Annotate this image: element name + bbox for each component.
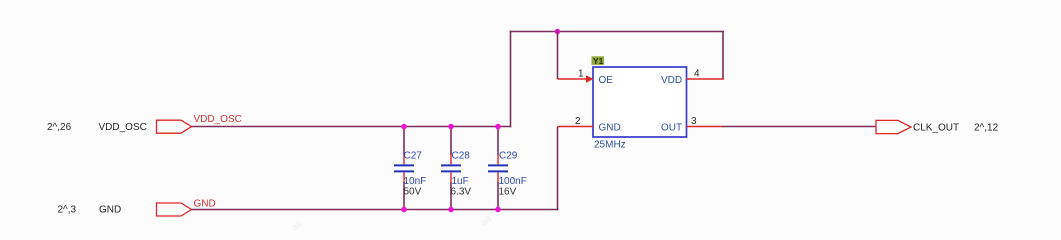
node C27 bottom <box>401 207 407 213</box>
port VDD_OSC <box>157 120 192 133</box>
node C28 bottom <box>448 207 454 213</box>
pin 4 VDD <box>687 78 724 80</box>
svg-text:VDD: VDD <box>661 75 682 86</box>
svg-text:VDD_OSC: VDD_OSC <box>194 114 242 125</box>
capacitor C27 <box>394 124 426 213</box>
svg-text:VDD_OSC: VDD_OSC <box>99 122 147 133</box>
svg-text:GND: GND <box>99 205 121 216</box>
svg-text:4: 4 <box>694 69 700 80</box>
svg-text:C27: C27 <box>404 151 423 162</box>
pin C29 top <box>497 155 499 164</box>
pin 3 OUT <box>687 126 724 128</box>
svg-text:1uF: 1uF <box>452 176 469 187</box>
plates C29 <box>488 164 508 166</box>
pin C27 top <box>403 155 405 164</box>
svg-text:OUT: OUT <box>661 122 682 133</box>
pin C27 bottom <box>403 173 405 183</box>
svg-text:CLK_OUT: CLK_OUT <box>913 122 959 133</box>
svg-text:16V: 16V <box>499 187 517 198</box>
watermark <box>289 214 493 233</box>
svg-text:1: 1 <box>578 69 584 80</box>
wire GND horizontal <box>192 209 559 211</box>
pin C28 bottom <box>450 173 452 183</box>
svg-text:25MHz: 25MHz <box>594 139 626 150</box>
svg-text:GND: GND <box>194 198 216 209</box>
node C27 top <box>401 124 407 130</box>
svg-text:2^,26: 2^,26 <box>47 122 72 133</box>
wire GND vertical up to pin 2 <box>557 127 559 211</box>
svg-text:GND: GND <box>599 122 621 133</box>
svg-text:6.3V: 6.3V <box>451 187 472 198</box>
svg-text:100nF: 100nF <box>499 176 527 187</box>
wire vertical up to top rail <box>510 31 512 128</box>
pin C29 bottom <box>497 173 499 183</box>
wire cap C27 bottom <box>403 182 405 210</box>
svg-text:C28: C28 <box>452 151 471 162</box>
svg-text:C29: C29 <box>499 151 518 162</box>
svg-text:Y1: Y1 <box>593 56 604 66</box>
node C29 top <box>495 124 501 130</box>
wire VDD_OSC horizontal <box>192 126 512 128</box>
port GND <box>157 203 192 216</box>
designator highlight Y1 <box>592 56 605 65</box>
wire cap C28 bottom <box>450 182 452 210</box>
plates C27 <box>394 164 414 166</box>
port CLK_OUT <box>876 120 911 133</box>
svg-text:10nF: 10nF <box>404 176 427 187</box>
wire cap C27 top <box>403 127 405 156</box>
wire down to pin 1 <box>557 31 559 79</box>
svg-text:2^,3: 2^,3 <box>58 205 77 216</box>
capacitor C29 <box>488 124 527 213</box>
svg-text:OE: OE <box>599 75 614 86</box>
body Y1 <box>593 67 687 137</box>
wire OUT to port <box>722 126 876 128</box>
svg-text:50V: 50V <box>404 187 422 198</box>
capacitor C28 <box>441 124 471 213</box>
node C28 top <box>448 124 454 130</box>
svg-text:3: 3 <box>691 116 697 127</box>
node junction top rail <box>555 29 561 35</box>
node C29 bottom <box>495 207 501 213</box>
wire cap C29 bottom <box>497 182 499 210</box>
wire top rail <box>510 31 724 33</box>
svg-text:2^,12: 2^,12 <box>974 122 999 133</box>
oscillator U/Y1 <box>558 56 724 151</box>
plates C28 <box>441 164 461 166</box>
wire cap C29 top <box>497 127 499 156</box>
svg-text:2: 2 <box>575 116 581 127</box>
pin C28 top <box>450 155 452 164</box>
pin 1 OE <box>558 78 588 80</box>
wire cap C28 top <box>450 127 452 156</box>
pin 2 GND <box>558 126 594 128</box>
wire down to pin 4 <box>722 31 724 80</box>
